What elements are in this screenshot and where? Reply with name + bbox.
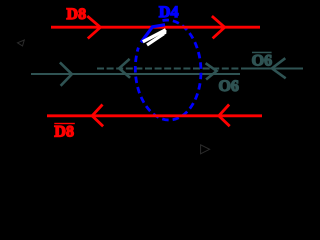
D8 brane line (top, red) — [51, 26, 260, 29]
arrow on O6 line (mid-right) — [206, 63, 217, 79]
anti-D8 brane line (bottom, red) — [47, 114, 262, 117]
arrow on D8 line (left) — [87, 16, 100, 38]
D4 arrow tail (solid blue arc segment, upper-left) — [141, 25, 165, 43]
O6 plane line (solid teal, lower) — [31, 73, 240, 75]
svg-text:D8: D8 — [67, 6, 87, 23]
D4 direction arrowhead (white open arrow) tip filler — [161, 30, 167, 36]
arrow on D8 line (right) — [212, 16, 225, 38]
svg-text:D4: D4 — [159, 4, 179, 21]
anti-O6 mirror line (dashed teal, upper) — [97, 68, 241, 70]
svg-text:O6: O6 — [252, 53, 272, 70]
arrow on anti-D8 line (right) — [219, 105, 230, 127]
D4 brane (dashed blue ellipse with gap at arrow) — [134, 19, 203, 121]
anti-O6 line solid part (right) — [241, 68, 303, 70]
svg-text:D8: D8 — [54, 123, 74, 140]
D4 direction arrowhead (white open arrow) upper band — [143, 30, 166, 42]
arrow on anti-O6 line (left) — [119, 59, 130, 78]
D4 direction arrowhead (white open arrow) lower band — [147, 34, 164, 45]
arrow on anti-O6 line (right) — [272, 58, 286, 78]
label anti-D8 overline — [54, 123, 75, 124]
faint triangle marker (left) — [18, 40, 25, 46]
arrow on O6 line (left) — [60, 62, 72, 85]
svg-text:O6: O6 — [218, 78, 238, 95]
label anti-O6 overline — [252, 52, 272, 54]
faint triangle marker (lower right) — [201, 145, 210, 154]
arrow on anti-D8 line (left) — [92, 105, 103, 127]
